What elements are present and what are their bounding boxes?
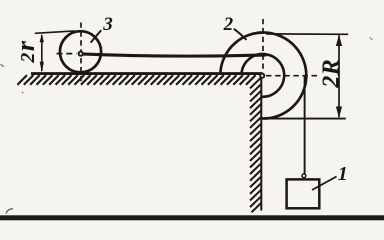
stray speck top-right <box>370 38 373 40</box>
wheel 3 axle hub <box>79 52 83 56</box>
dimension 2R top extension line <box>266 33 348 35</box>
table edge hatching <box>250 78 261 213</box>
dimension 2R bottom arrowhead <box>336 107 342 118</box>
wheel 3 centerline horizontal (dashed) <box>57 53 77 55</box>
table top hatching <box>17 75 255 85</box>
pulley 2 centerline vertical (dashed) <box>262 19 264 72</box>
stray dot left <box>22 92 24 94</box>
wheel 3 centerline vertical (dashed) <box>80 23 82 84</box>
leader line to label 1 <box>312 177 337 191</box>
svg-text:3: 3 <box>102 14 113 35</box>
bottom page rule <box>0 215 384 220</box>
dimension 2R arrow line <box>338 35 340 117</box>
dimension 2R top arrowhead <box>336 35 342 46</box>
weight 1 box <box>287 179 320 208</box>
dimension 2r arrow line <box>41 35 43 71</box>
dimension 2r bottom arrowhead <box>40 62 44 73</box>
table top surface line <box>31 72 263 75</box>
stray mark bottom-left <box>6 209 13 214</box>
svg-text:1: 1 <box>338 163 348 185</box>
dimension 2R bottom extension line <box>262 118 346 120</box>
pulley 2 axle hub <box>260 74 264 78</box>
stray tick left edge <box>1 64 4 67</box>
svg-text:2R: 2R <box>319 59 345 89</box>
pulley 2 outer rim <box>220 33 306 119</box>
dimension 2r top arrowhead <box>40 34 44 43</box>
svg-text:2: 2 <box>223 14 234 35</box>
pulley 2 inner hub rim <box>242 54 285 97</box>
pulley 2 centerline horizontal (dashed) <box>266 75 320 77</box>
leader line to label 2 <box>234 29 247 40</box>
wheel 3 rim <box>60 31 101 72</box>
rope to weight <box>304 76 306 174</box>
dimension 2r extension tick <box>35 31 75 33</box>
rope hook loop <box>302 174 306 178</box>
cord from wheel 3 axle to pulley 2 hub <box>81 54 267 56</box>
leader line to label 3 <box>91 30 102 42</box>
table vertical edge (wall) <box>260 75 262 211</box>
